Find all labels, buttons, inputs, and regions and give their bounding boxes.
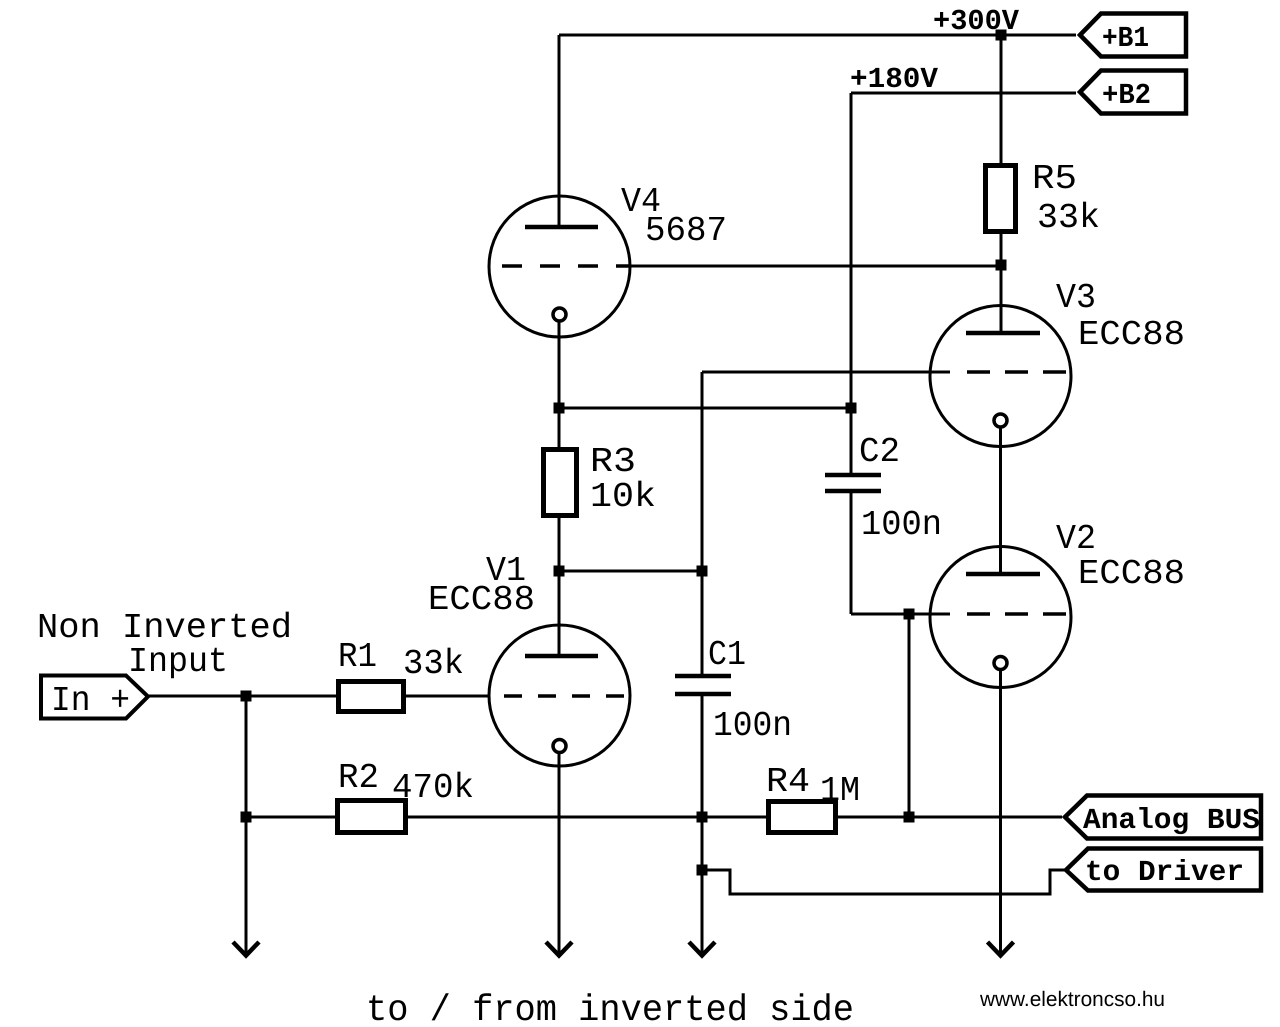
node to-driver branch junction [697,865,708,876]
ground arrow V2 cathode [988,942,1014,956]
wire C2 to V2 grid [851,613,950,616]
wire V4 grid to node A [630,265,1001,268]
svg-text:470k: 470k [392,768,474,808]
svg-text:+300V: +300V [933,5,1020,38]
node V2 grid leg bus junction [904,812,915,823]
node C2 bottom / V2 grid junction [904,609,915,620]
svg-text:V2: V2 [1056,519,1096,559]
svg-text:+180V: +180V [850,63,939,96]
wire R5 top lead [1000,35,1003,163]
node R3 bottom / V1 plate junction [554,566,565,577]
capacitor C2 [825,475,881,491]
wire R3 bottom lead [558,518,561,571]
wire V4 cathode lead [558,321,561,408]
svg-text:+B2: +B2 [1102,79,1151,112]
node R5 bottom / V3 plate junction [996,260,1007,271]
wire V2 cathode down [999,669,1002,953]
wire R5 bottom to V3 plate [1000,234,1003,333]
wire +300V rail [559,34,1076,37]
svg-text:10k: 10k [590,477,656,517]
resistor R3 [544,450,577,516]
svg-text:5687: 5687 [645,211,727,251]
port flag In + [41,676,148,719]
svg-text:1M: 1M [820,771,860,811]
wire analog bus [246,816,1062,819]
node R2 left bus junction [241,812,252,823]
capacitor C1 [675,676,731,694]
svg-text:Input: Input [128,642,228,682]
wire C1 top vertical [701,372,704,676]
svg-text:33k: 33k [403,644,464,684]
wire to V3 grid [702,371,950,374]
port flag +B1 [1080,14,1186,57]
wire input node down [245,696,248,953]
wire In+ to R1 [148,695,336,698]
wire V3 cathode to V2 plate [999,427,1002,574]
ground arrow input node [233,942,259,956]
wire node C horizontal [559,570,702,573]
svg-text:R1: R1 [338,637,377,677]
port flag +B2 [1080,71,1186,114]
svg-text:R4: R4 [766,762,810,802]
wire driver junction to ground arrow [701,870,704,953]
svg-text:C1: C1 [708,635,746,675]
triode V4 [489,196,631,337]
node C1 top junction [697,566,708,577]
wire bus to driver junction [701,817,704,870]
resistor R4 [769,802,836,833]
svg-text:R2: R2 [338,758,379,798]
svg-text:C2: C2 [859,432,900,472]
port flag to Driver [1066,849,1261,891]
svg-text:V3: V3 [1056,278,1096,318]
svg-text:R5: R5 [1032,159,1077,199]
node C2 top junction [846,403,857,414]
triode V1 [489,625,630,766]
svg-text:+B1: +B1 [1102,22,1149,55]
svg-text:100n: 100n [861,505,942,545]
wire R1 to V1 grid [406,695,489,698]
resistor R5 [986,166,1016,232]
svg-text:R3: R3 [590,442,636,482]
svg-text:ECC88: ECC88 [428,580,535,620]
wire C2 bottom vertical [850,491,853,614]
node V4 cathode / R3 top junction [554,403,565,414]
ground arrow V1 cathode [546,942,572,956]
svg-text:to Driver: to Driver [1085,856,1244,889]
node C1 bottom bus junction [697,812,708,823]
ground arrow C1 node [689,942,715,956]
wire step to driver flag [702,870,1066,894]
svg-text:100n: 100n [713,706,792,746]
wire V2 grid node to bus [908,614,911,817]
node +300V junction at R5 top [996,30,1007,41]
port flag Analog BUS [1065,796,1261,839]
svg-text:www.elektroncso.hu: www.elektroncso.hu [979,988,1165,1011]
triode V3 [930,306,1071,447]
svg-text:ECC88: ECC88 [1078,315,1185,355]
resistor R1 [339,682,404,712]
wire R3 top lead [558,408,561,447]
resistor R2 [338,801,406,833]
svg-text:In +: In + [51,681,130,721]
wire +180V drop to C2 [850,93,853,474]
svg-text:ECC88: ECC88 [1078,554,1185,594]
wire C1 bottom to bus [701,694,704,817]
wire node B horizontal [559,407,851,410]
svg-text:to / from inverted side: to / from inverted side [366,990,854,1027]
svg-text:33k: 33k [1037,198,1100,238]
wire +180V rail [851,92,1076,95]
svg-text:Analog BUS: Analog BUS [1083,804,1260,837]
wire V4 plate lead from +300V [558,35,561,227]
triode V2 [930,547,1071,688]
wire V1 cathode down [558,752,561,953]
node input junction [241,691,252,702]
wire V1 plate lead [558,571,561,656]
